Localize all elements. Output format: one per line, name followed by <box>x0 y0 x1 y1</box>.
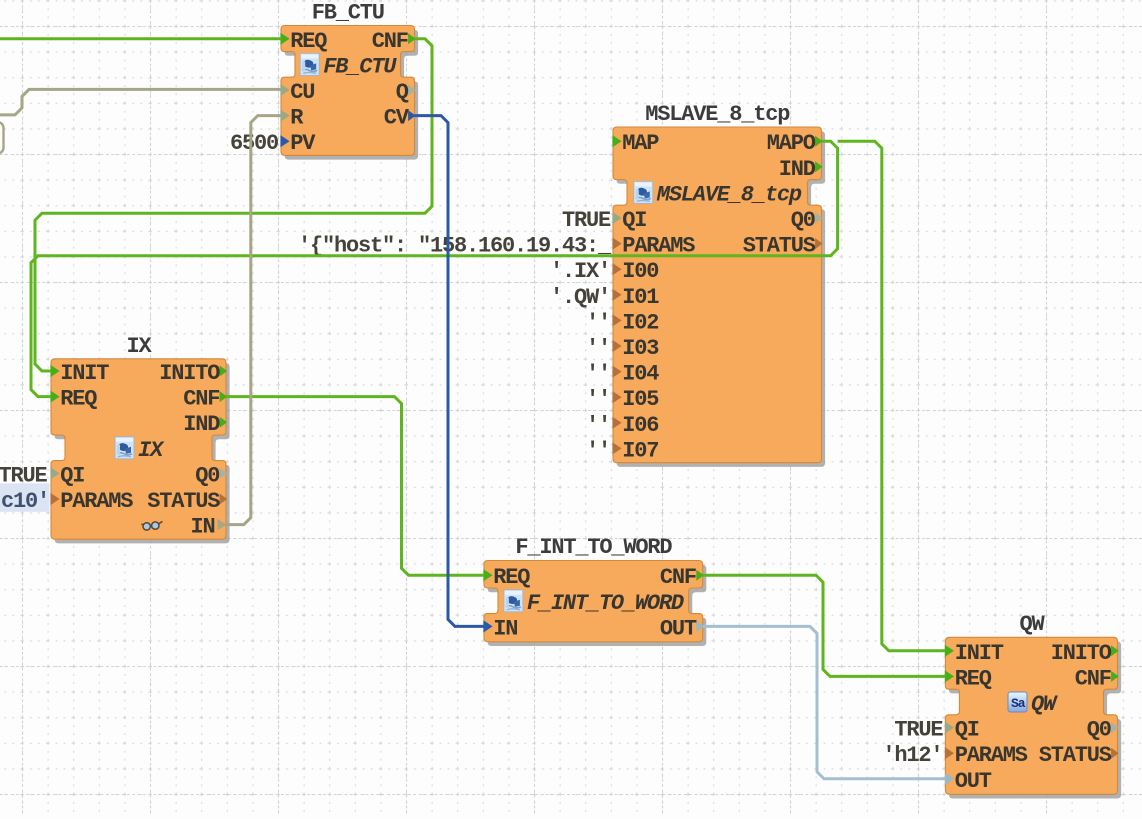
svg-text:STATUS: STATUS <box>1039 743 1112 768</box>
svg-text:IND: IND <box>183 412 220 437</box>
pin U1 FB_CTU.Q (output) <box>396 80 416 105</box>
block U2 MSLAVE_8_tcp drop shadow <box>617 131 826 467</box>
wire U1.CNF to U3.INIT <box>35 39 432 371</box>
svg-text:I06: I06 <box>622 413 658 438</box>
svg-text:Sa: Sa <box>1011 696 1026 711</box>
svg-text:I03: I03 <box>622 336 659 361</box>
pin U1 FB_CTU.R (input) <box>280 106 304 131</box>
svg-text:INITO: INITO <box>1051 641 1112 666</box>
pin U5 QW.REQ (input) <box>945 666 992 691</box>
svg-text:c10': c10' <box>1 489 49 514</box>
block U3 IX type icon <box>115 437 134 459</box>
wire off-screen block to U1.CU <box>0 89 281 115</box>
svg-text:IN: IN <box>191 515 215 540</box>
pin U2 MSLAVE_8_tcp.Q0 (output) <box>791 208 823 233</box>
wire input to U1.REQ <box>0 37 281 40</box>
pin U1 FB_CTU.CU (input) <box>280 80 314 105</box>
pin U2 MSLAVE_8_tcp.I03 (input) <box>612 336 659 361</box>
pin U3 IX.INIT (input) <box>50 361 109 386</box>
value label c10 (selected) on U3.PARAMS <box>0 483 50 514</box>
svg-text:6500: 6500 <box>230 131 278 156</box>
pin U3 IX.PARAMS (input) <box>50 489 133 514</box>
pin U2 MSLAVE_8_tcp.I02 (input) <box>612 310 658 335</box>
pin U5 QW.INIT (input) <box>945 641 1004 666</box>
svg-text:FB_CTU: FB_CTU <box>312 1 384 26</box>
block U3 IX drop shadow <box>55 363 230 543</box>
svg-text:TRUE: TRUE <box>562 208 611 233</box>
pin U2 MSLAVE_8_tcp.I00 (input) <box>612 259 658 284</box>
block U4 F_INT_TO_WORD drop shadow <box>488 565 707 646</box>
svg-text:MSLAVE_8_tcp: MSLAVE_8_tcp <box>656 182 802 207</box>
block U1 FB_CTU type icon <box>300 53 319 75</box>
svg-text:IX: IX <box>127 334 153 359</box>
pin U2 MSLAVE_8_tcp.PARAMS (input) <box>612 234 695 259</box>
svg-text:MAP: MAP <box>622 131 659 156</box>
wire U2.MAPO to U3.REQ <box>31 141 838 396</box>
svg-text:'': '' <box>586 310 610 335</box>
svg-text:REQ: REQ <box>60 387 97 412</box>
block U5 QW drop shadow <box>949 642 1121 799</box>
svg-text:F_INT_TO_WORD: F_INT_TO_WORD <box>515 535 672 560</box>
svg-text:MSLAVE_8_tcp: MSLAVE_8_tcp <box>645 102 790 127</box>
pin U5 QW.Q0 (output) <box>1087 718 1119 743</box>
block U1 FB_CTU drop shadow <box>285 30 419 160</box>
svg-text:PARAMS: PARAMS <box>60 489 133 514</box>
svg-text:CNF: CNF <box>1075 666 1111 691</box>
pin U3 IX.QI (input) <box>50 463 84 488</box>
pin U1 FB_CTU.CNF (output) <box>372 29 416 54</box>
svg-text:Q: Q <box>396 80 409 105</box>
partial off-screen block at left edge <box>0 122 4 154</box>
pin U4 F_INT_TO_WORD.OUT (output) <box>660 616 704 641</box>
svg-text:OUT: OUT <box>955 769 992 794</box>
svg-text:F_INT_TO_WORD: F_INT_TO_WORD <box>527 591 684 616</box>
pin U1 FB_CTU.REQ (input) <box>280 29 327 54</box>
pin U2 MSLAVE_8_tcp.I07 (input) <box>612 438 658 463</box>
svg-text:IX: IX <box>138 438 165 463</box>
svg-text:'': '' <box>586 362 610 387</box>
pin U2 MSLAVE_8_tcp.QI (input) <box>612 208 646 233</box>
pin U5 QW.CNF (output) <box>1075 666 1119 691</box>
svg-text:QW: QW <box>1020 612 1046 637</box>
svg-text:'': '' <box>586 413 610 438</box>
pin U2 MSLAVE_8_tcp.I06 (input) <box>612 413 658 438</box>
svg-text:INITO: INITO <box>159 361 220 386</box>
svg-text:CNF: CNF <box>660 565 696 590</box>
pin U3 IX.INITO (output) <box>159 361 227 386</box>
wire U2.MAPO to U5.INIT <box>838 141 946 651</box>
pin U3 IX.Q0 (output) <box>195 463 227 488</box>
pin U5 QW.OUT (input) <box>945 769 992 794</box>
svg-text:REQ: REQ <box>955 666 992 691</box>
pin U4 F_INT_TO_WORD.REQ (input) <box>483 565 530 590</box>
block U5 QW body <box>945 637 1117 794</box>
svg-text:I04: I04 <box>622 362 659 387</box>
svg-text:'': '' <box>586 336 610 361</box>
block U2 MSLAVE_8_tcp type icon <box>634 181 653 203</box>
pin U1 FB_CTU.CV (output) <box>384 106 416 131</box>
svg-text:PV: PV <box>290 131 316 156</box>
pin U1 FB_CTU.PV (input) <box>280 131 316 156</box>
svg-text:QI: QI <box>60 463 84 488</box>
pin U3 IX.STATUS (output) <box>147 489 227 514</box>
svg-text:I01: I01 <box>622 285 659 310</box>
pin U2 MSLAVE_8_tcp.I04 (input) <box>612 362 659 387</box>
pin U5 QW.STATUS (output) <box>1039 743 1119 768</box>
pin U2 MSLAVE_8_tcp.IND (output) <box>779 157 823 182</box>
svg-text:FB_CTU: FB_CTU <box>323 54 397 79</box>
svg-text:Q0: Q0 <box>791 208 815 233</box>
svg-text:CU: CU <box>290 80 314 105</box>
block U3 IX body <box>51 359 226 539</box>
pin U2 MSLAVE_8_tcp.MAPO (output) <box>767 131 823 156</box>
svg-text:QI: QI <box>622 208 646 233</box>
pin U4 F_INT_TO_WORD.CNF (output) <box>660 565 704 590</box>
svg-text:I02: I02 <box>622 310 658 335</box>
svg-text:Q0: Q0 <box>1087 718 1111 743</box>
svg-text:IN: IN <box>493 616 517 641</box>
block U5 QW type icon <box>1008 692 1027 712</box>
wire U1.CV to U4.IN <box>415 116 485 627</box>
svg-text:QW: QW <box>1031 692 1058 717</box>
pin U2 MSLAVE_8_tcp.I05 (input) <box>612 387 659 412</box>
svg-text:QI: QI <box>955 718 979 743</box>
pin U5 QW.QI (input) <box>945 718 979 743</box>
svg-text:INIT: INIT <box>955 641 1004 666</box>
block U4 F_INT_TO_WORD body <box>484 561 703 642</box>
svg-text:'.QW': '.QW' <box>550 285 610 310</box>
svg-text:OUT: OUT <box>660 616 697 641</box>
svg-text:REQ: REQ <box>290 29 327 54</box>
svg-text:'h12': 'h12' <box>882 743 942 768</box>
svg-text:MAPO: MAPO <box>767 131 816 156</box>
svg-text:REQ: REQ <box>493 565 530 590</box>
svg-text:'.IX': '.IX' <box>550 259 610 284</box>
wire U3.CNF to U4.REQ <box>226 397 484 576</box>
pin U5 QW.PARAMS (input) <box>945 743 1028 768</box>
svg-text:I07: I07 <box>622 438 658 463</box>
pin U3 IX.REQ (input) <box>50 387 97 412</box>
pin U4 F_INT_TO_WORD.IN (input) <box>483 616 517 641</box>
svg-text:I00: I00 <box>622 259 658 284</box>
svg-text:INIT: INIT <box>60 361 109 386</box>
pin U2 MSLAVE_8_tcp.MAP (input) <box>612 131 659 156</box>
svg-text:CV: CV <box>384 106 410 131</box>
block U4 F_INT_TO_WORD type icon <box>504 590 523 612</box>
block U1 FB_CTU body <box>281 26 415 156</box>
svg-text:PARAMS: PARAMS <box>955 743 1028 768</box>
wire U3.IN to U1.R <box>226 116 281 525</box>
svg-text:CNF: CNF <box>372 29 408 54</box>
pin U3 IX.IN (output) <box>141 515 227 540</box>
pin U3 IX.CNF (output) <box>183 387 227 412</box>
svg-text:IND: IND <box>779 157 816 182</box>
pin U2 MSLAVE_8_tcp.STATUS (output) <box>743 234 823 259</box>
svg-text:I05: I05 <box>622 387 659 412</box>
wire U4.OUT to U5.OUT <box>703 626 946 778</box>
pin U3 IX.IND (output) <box>183 412 227 437</box>
pin U5 QW.INITO (output) <box>1051 641 1119 666</box>
pin U2 MSLAVE_8_tcp.I01 (input) <box>612 285 659 310</box>
svg-text:Q0: Q0 <box>195 463 219 488</box>
wire U4.CNF to U5.REQ <box>703 575 946 676</box>
svg-text:TRUE: TRUE <box>894 718 943 743</box>
svg-text:'': '' <box>586 387 610 412</box>
block U2 MSLAVE_8_tcp body <box>613 127 822 463</box>
svg-text:STATUS: STATUS <box>147 489 220 514</box>
svg-text:CNF: CNF <box>183 387 219 412</box>
svg-text:'': '' <box>586 438 610 463</box>
svg-text:R: R <box>290 106 304 131</box>
